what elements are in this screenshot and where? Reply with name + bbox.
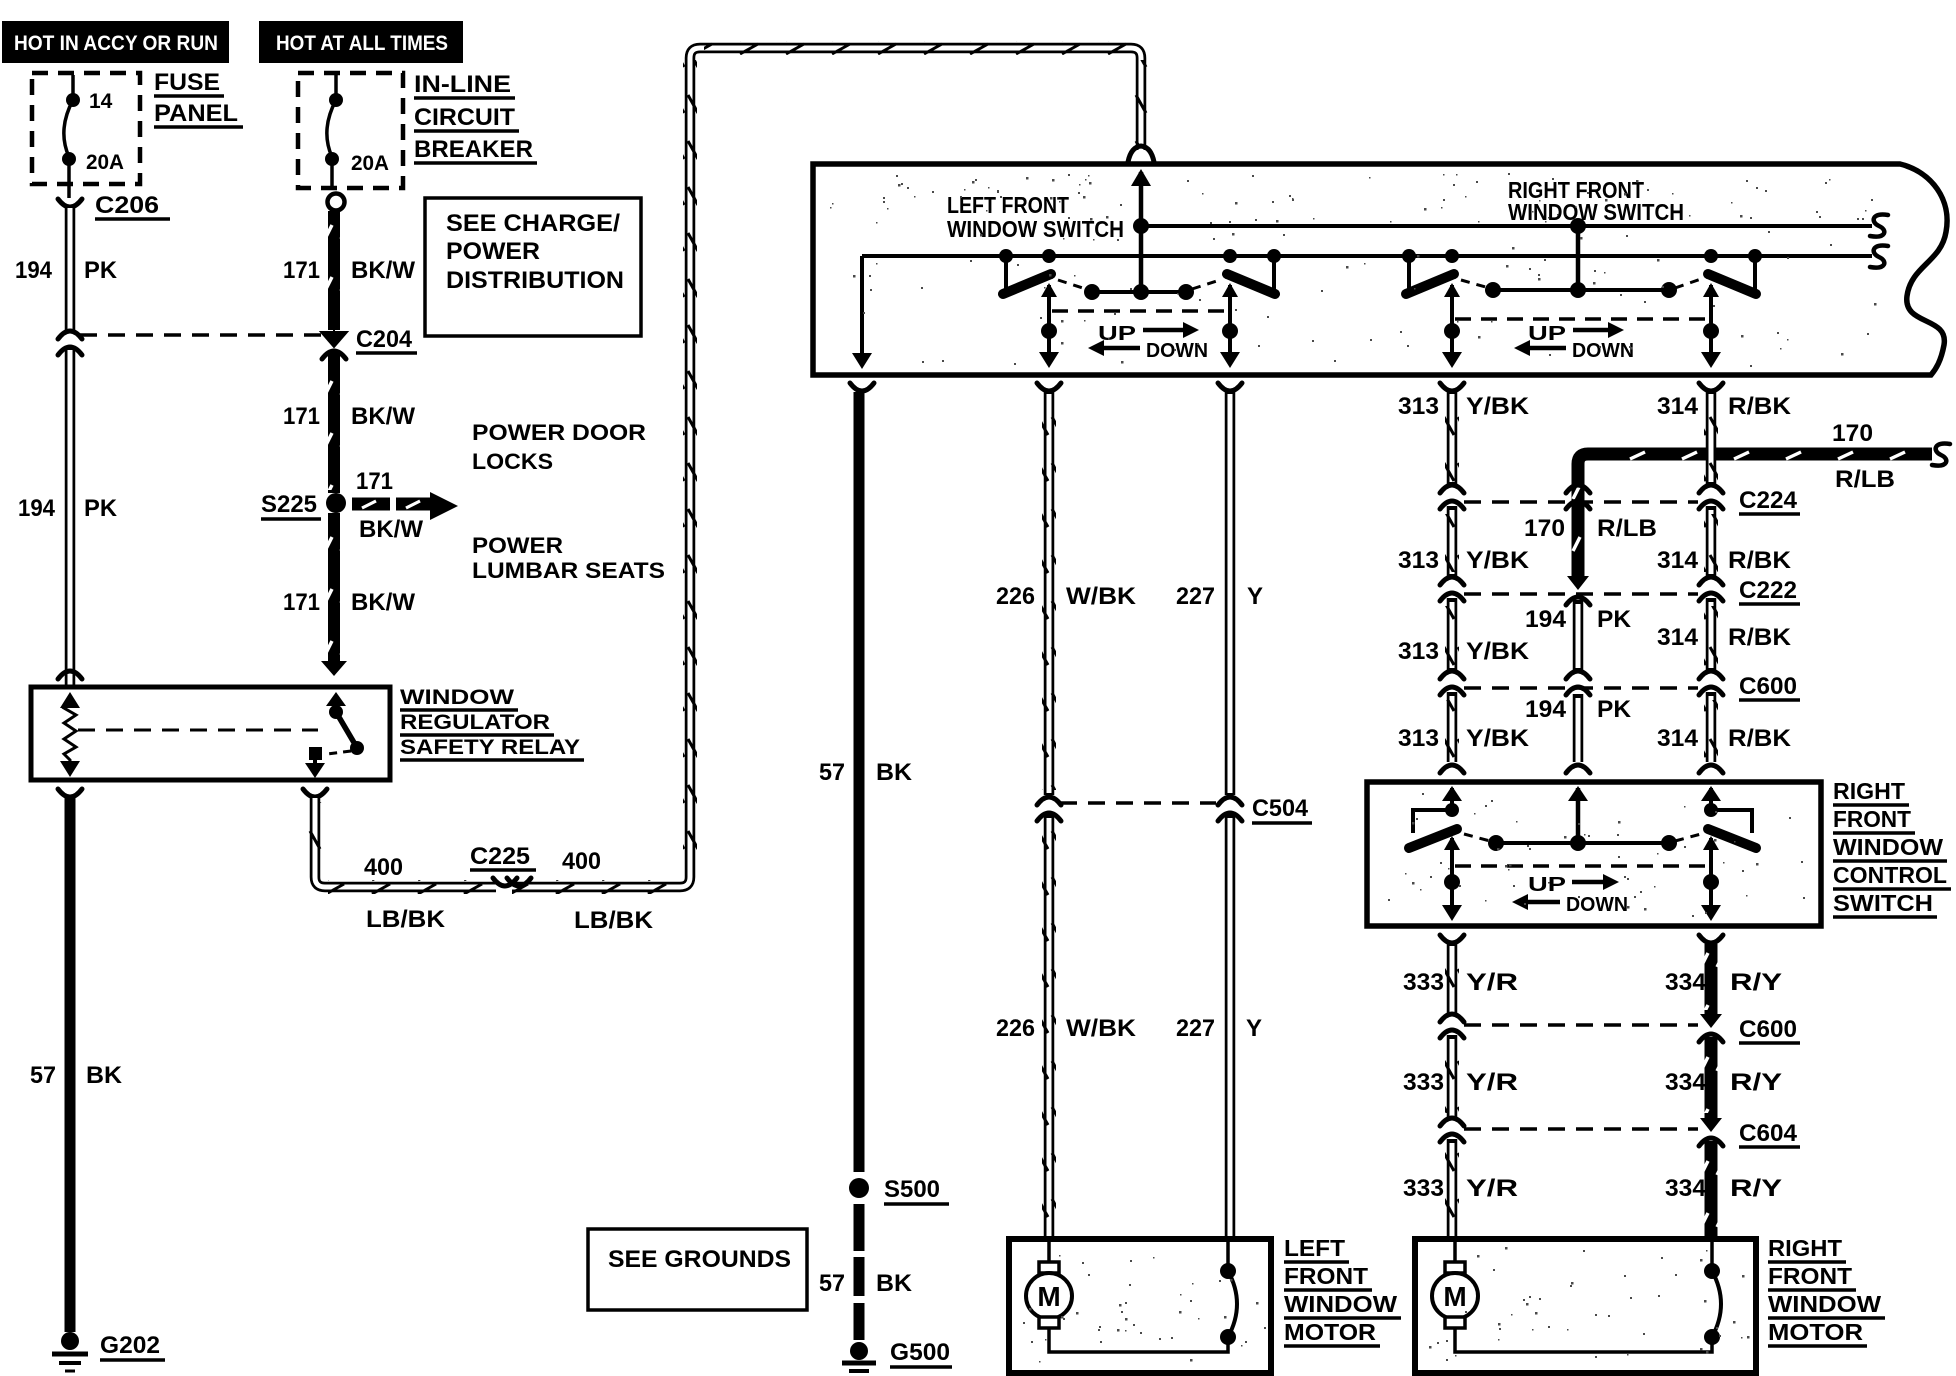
svg-text:Y/BK: Y/BK xyxy=(1466,638,1530,665)
svg-text:333: 333 xyxy=(1403,1175,1444,1202)
wire 333 Y/R seg1 xyxy=(1403,944,1518,1014)
svg-text:226: 226 xyxy=(996,1015,1035,1042)
svg-text:313: 313 xyxy=(1398,725,1439,752)
control switch UP/DOWN arrows xyxy=(1512,874,1628,916)
svg-text:PK: PK xyxy=(1597,696,1632,723)
right front window motor box xyxy=(1415,1239,1756,1373)
window switch assembly box with torn right edge xyxy=(813,164,1947,375)
right switch left wiper xyxy=(1402,249,1489,294)
label RIGHT FRONT WINDOW SWITCH xyxy=(1508,177,1684,225)
svg-text:C604: C604 xyxy=(1739,1120,1798,1147)
control switch right wiper xyxy=(1675,788,1756,848)
svg-text:57: 57 xyxy=(30,1062,56,1089)
arrow to power door locks / lumbar seats 171 BK/W xyxy=(352,468,458,543)
label IN-LINE CIRCUIT BREAKER xyxy=(414,71,537,163)
svg-text:S500: S500 xyxy=(884,1176,940,1203)
svg-text:C204: C204 xyxy=(356,326,413,353)
wire 333 Y/R seg3 xyxy=(1403,1139,1518,1242)
svg-text:227: 227 xyxy=(1176,1015,1215,1042)
svg-text:UP: UP xyxy=(1528,323,1566,345)
wire 313 Y/BK seg2 xyxy=(1398,506,1530,576)
svg-text:POWER DOOR: POWER DOOR xyxy=(472,420,646,445)
svg-text:Y/BK: Y/BK xyxy=(1466,725,1530,752)
wire 333 Y/R seg2 xyxy=(1403,1035,1518,1118)
svg-text:DOWN: DOWN xyxy=(1566,894,1628,916)
svg-text:194: 194 xyxy=(1525,606,1567,633)
splice S500 xyxy=(849,1176,949,1204)
ground G500 xyxy=(842,1339,952,1371)
left switch left wiper xyxy=(999,249,1086,294)
ground G202 xyxy=(52,1332,165,1371)
wire 194 PK lower segment xyxy=(1525,694,1632,762)
right switch center contacts xyxy=(1485,282,1677,298)
left switch DOWN plunger xyxy=(1220,283,1240,368)
svg-text:CIRCUIT: CIRCUIT xyxy=(414,104,515,131)
svg-text:14: 14 xyxy=(89,90,113,113)
svg-text:MOTOR: MOTOR xyxy=(1284,1319,1376,1345)
svg-text:FRONT: FRONT xyxy=(1284,1263,1368,1289)
svg-text:LEFT: LEFT xyxy=(1284,1235,1345,1261)
connector C225 xyxy=(470,843,536,896)
connector cap below box (wire 227) xyxy=(1218,383,1242,391)
relay switch xyxy=(305,692,364,778)
bus line2 xyxy=(862,254,1872,258)
fuse panel box (dashed) xyxy=(32,73,140,184)
wire 227 Y lower xyxy=(1176,814,1262,1242)
svg-text:C224: C224 xyxy=(1739,487,1798,514)
svg-text:SWITCH: SWITCH xyxy=(1833,890,1933,916)
svg-text:R/BK: R/BK xyxy=(1728,725,1792,752)
header HOT AT ALL TIMES xyxy=(259,21,463,63)
connector C204 dashed line xyxy=(80,333,325,337)
svg-text:Y: Y xyxy=(1247,583,1263,610)
connector C504 xyxy=(1037,795,1312,823)
svg-text:Y/BK: Y/BK xyxy=(1466,393,1530,420)
connector arrow into relay (wire 171) xyxy=(321,661,347,676)
bus line1 xyxy=(1141,224,1872,228)
connector C204 on wire 194 xyxy=(58,331,82,355)
svg-text:334: 334 xyxy=(1665,969,1707,996)
svg-text:R/BK: R/BK xyxy=(1728,624,1792,651)
control switch mechanical link dashed xyxy=(1455,864,1709,868)
connector C224 xyxy=(1440,485,1800,514)
connector cap below control box (wire 334) xyxy=(1699,935,1723,943)
svg-text:20A: 20A xyxy=(86,151,124,174)
svg-text:194: 194 xyxy=(1525,696,1567,723)
wire 194 PK mid segment xyxy=(1525,600,1632,670)
svg-text:400: 400 xyxy=(364,854,403,881)
svg-text:G202: G202 xyxy=(100,1332,160,1359)
svg-text:RIGHT: RIGHT xyxy=(1768,1235,1842,1261)
label FUSE PANEL xyxy=(154,69,243,127)
svg-text:333: 333 xyxy=(1403,1069,1444,1096)
wire 313 Y/BK seg3 xyxy=(1398,598,1530,670)
wire 227 Y upper xyxy=(1176,392,1263,795)
wire 314 R/BK seg2 xyxy=(1657,506,1792,576)
svg-text:C225: C225 xyxy=(470,843,530,870)
connector cap below relay (wire 400) xyxy=(303,789,327,797)
note POWER DOOR LOCKS xyxy=(472,420,646,474)
svg-text:W/BK: W/BK xyxy=(1066,1015,1137,1042)
in-line circuit breaker box (dashed) xyxy=(298,73,403,188)
connector cap above switch box (wire 400) xyxy=(1128,146,1154,162)
right motor M xyxy=(1432,1242,1712,1352)
svg-text:BK: BK xyxy=(876,759,913,786)
window regulator safety relay box xyxy=(31,687,390,780)
wire 334 R/Y seg2 xyxy=(1665,1037,1782,1120)
svg-text:HOT IN ACCY OR RUN: HOT IN ACCY OR RUN xyxy=(14,32,218,55)
connector C206 xyxy=(58,184,170,219)
svg-text:POWER: POWER xyxy=(472,533,563,558)
right switch UP/DOWN arrows xyxy=(1514,322,1634,362)
svg-text:SEE CHARGE/: SEE CHARGE/ xyxy=(446,210,620,237)
wire 57 BK left xyxy=(30,798,123,1332)
right switch DOWN plunger xyxy=(1701,283,1721,368)
connector C604 xyxy=(1440,1118,1800,1147)
svg-text:194: 194 xyxy=(18,495,56,522)
label LEFT FRONT WINDOW SWITCH xyxy=(947,192,1124,242)
svg-text:PK: PK xyxy=(1597,606,1632,633)
labels 400 LB/BK left xyxy=(364,854,446,933)
wire 194 PK upper segment xyxy=(15,208,118,330)
svg-text:REGULATOR: REGULATOR xyxy=(400,711,550,734)
svg-text:333: 333 xyxy=(1403,969,1444,996)
svg-text:314: 314 xyxy=(1657,725,1699,752)
svg-text:WINDOW: WINDOW xyxy=(1768,1291,1881,1317)
control switch left wiper xyxy=(1409,788,1490,848)
svg-text:BK/W: BK/W xyxy=(351,403,415,430)
svg-text:SEE GROUNDS: SEE GROUNDS xyxy=(608,1246,791,1273)
connector cap below box (wire 226) xyxy=(1037,383,1061,391)
svg-text:R/LB: R/LB xyxy=(1597,515,1657,542)
S break wire 170 xyxy=(1932,443,1950,465)
svg-text:313: 313 xyxy=(1398,393,1439,420)
svg-text:Y/R: Y/R xyxy=(1466,1175,1518,1202)
svg-text:C222: C222 xyxy=(1739,577,1797,604)
svg-text:171: 171 xyxy=(283,589,320,616)
svg-text:C600: C600 xyxy=(1739,673,1797,700)
header HOT IN ACCY OR RUN xyxy=(2,21,229,63)
breaker terminal ring xyxy=(328,194,345,211)
svg-text:194: 194 xyxy=(15,257,53,284)
svg-text:313: 313 xyxy=(1398,547,1439,574)
connector C222 xyxy=(1440,576,1800,605)
connector C600 upper xyxy=(1440,671,1800,700)
control switch left plunger xyxy=(1442,836,1462,921)
svg-text:WINDOW SWITCH: WINDOW SWITCH xyxy=(1508,199,1684,225)
left motor reversing contact arc xyxy=(1220,1242,1237,1345)
wire 226 W/BK upper xyxy=(996,392,1137,795)
left switch UP plunger xyxy=(1039,283,1059,368)
right switch feed drop xyxy=(1570,218,1586,290)
svg-text:PK: PK xyxy=(84,495,118,522)
left motor M xyxy=(1026,1242,1228,1352)
svg-text:POWER: POWER xyxy=(446,238,540,265)
label WINDOW REGULATOR SAFETY RELAY xyxy=(400,686,584,760)
connector cap into relay (wire 194) xyxy=(58,671,82,679)
wire 57 BK mid xyxy=(819,392,913,1172)
note SEE CHARGE / POWER DISTRIBUTION xyxy=(425,198,641,336)
svg-text:FUSE: FUSE xyxy=(154,69,220,96)
S break line2 xyxy=(1870,245,1888,267)
svg-text:WINDOW: WINDOW xyxy=(400,686,514,709)
svg-text:226: 226 xyxy=(996,583,1035,610)
svg-text:Y/R: Y/R xyxy=(1466,969,1518,996)
svg-text:S225: S225 xyxy=(261,491,317,518)
right switch mechanical link dashed xyxy=(1455,317,1709,321)
svg-text:LB/BK: LB/BK xyxy=(574,907,654,934)
svg-text:G500: G500 xyxy=(890,1339,950,1366)
svg-text:314: 314 xyxy=(1657,547,1699,574)
relay actuation dashed link xyxy=(78,729,318,732)
svg-text:LB/BK: LB/BK xyxy=(366,906,446,933)
svg-text:WINDOW SWITCH: WINDOW SWITCH xyxy=(947,216,1124,242)
svg-text:BK/W: BK/W xyxy=(351,589,415,616)
connector C600 lower xyxy=(1440,1014,1800,1043)
connector cap below box (wire 314) xyxy=(1699,383,1723,391)
svg-text:C600: C600 xyxy=(1739,1016,1797,1043)
svg-text:M: M xyxy=(1037,1281,1060,1312)
wire 170 R/LB mid segment xyxy=(1524,506,1657,576)
svg-text:R/Y: R/Y xyxy=(1730,1069,1782,1096)
connector cap below box (wire 313) xyxy=(1440,383,1464,391)
svg-text:400: 400 xyxy=(562,848,601,875)
svg-text:C206: C206 xyxy=(95,192,159,219)
right motor reversing contact arc xyxy=(1704,1242,1721,1345)
wire 313 Y/BK seg1 xyxy=(1398,392,1530,484)
svg-text:IN-LINE: IN-LINE xyxy=(414,71,511,98)
svg-text:CONTROL: CONTROL xyxy=(1833,862,1947,888)
svg-text:20A: 20A xyxy=(351,152,389,175)
left switch mechanical link dashed xyxy=(1052,309,1228,313)
fuse F14 20A xyxy=(62,75,124,184)
wire 314 R/BK seg1 xyxy=(1657,392,1792,484)
svg-text:R/LB: R/LB xyxy=(1835,466,1895,493)
svg-text:BK: BK xyxy=(86,1062,123,1089)
svg-text:BK/W: BK/W xyxy=(351,257,415,284)
svg-text:171: 171 xyxy=(283,403,320,430)
svg-text:WINDOW: WINDOW xyxy=(1284,1291,1397,1317)
svg-text:57: 57 xyxy=(819,759,845,786)
right switch right wiper xyxy=(1675,249,1762,294)
label RIGHT FRONT WINDOW MOTOR xyxy=(1768,1235,1885,1346)
note SEE GROUNDS xyxy=(588,1229,807,1310)
circuit breaker element 20A xyxy=(325,75,389,188)
svg-text:314: 314 xyxy=(1657,624,1699,651)
wire 171 BK/W upper xyxy=(283,211,415,330)
svg-text:170: 170 xyxy=(1832,420,1873,447)
S break line1 xyxy=(1870,214,1888,236)
svg-text:Y: Y xyxy=(1246,1015,1262,1042)
svg-text:FRONT: FRONT xyxy=(1833,806,1911,832)
svg-text:PANEL: PANEL xyxy=(154,100,238,127)
left switch center contacts xyxy=(1084,284,1194,300)
svg-text:R/BK: R/BK xyxy=(1728,547,1792,574)
svg-text:W/BK: W/BK xyxy=(1066,583,1137,610)
wire 171 BK/W mid xyxy=(283,352,415,493)
svg-text:170: 170 xyxy=(1524,515,1565,542)
svg-text:MOTOR: MOTOR xyxy=(1768,1319,1863,1345)
label LEFT FRONT WINDOW MOTOR xyxy=(1284,1235,1401,1346)
connector C204 on wire 171 (male arrow + cap) xyxy=(321,326,417,359)
scan speckle xyxy=(830,173,1877,1363)
svg-text:WINDOW: WINDOW xyxy=(1833,834,1943,860)
svg-text:BK: BK xyxy=(876,1270,913,1297)
wire 334 R/Y seg1 xyxy=(1665,944,1782,1016)
svg-text:227: 227 xyxy=(1176,583,1215,610)
svg-text:Y/BK: Y/BK xyxy=(1466,547,1530,574)
wire 57 BK lower segments xyxy=(819,1204,913,1340)
relay coil element xyxy=(60,692,80,777)
svg-text:DISTRIBUTION: DISTRIBUTION xyxy=(446,267,624,294)
splice S225 xyxy=(261,491,346,519)
svg-text:LOCKS: LOCKS xyxy=(472,449,553,474)
labels 400 LB/BK right xyxy=(562,848,654,934)
label RIGHT FRONT WINDOW CONTROL SWITCH xyxy=(1833,778,1951,917)
right front window control switch box xyxy=(1367,782,1821,926)
svg-text:171: 171 xyxy=(356,468,393,495)
svg-text:DOWN: DOWN xyxy=(1572,340,1634,362)
wire 313 Y/BK seg4 xyxy=(1398,692,1530,762)
svg-text:334: 334 xyxy=(1665,1175,1707,1202)
wire 194 PK lower segment xyxy=(18,348,118,687)
svg-text:171: 171 xyxy=(283,257,320,284)
wire 226 W/BK lower xyxy=(996,814,1137,1242)
svg-text:57: 57 xyxy=(819,1270,845,1297)
svg-text:LEFT FRONT: LEFT FRONT xyxy=(947,192,1069,218)
svg-text:SAFETY RELAY: SAFETY RELAY xyxy=(400,736,580,759)
left front window motor box xyxy=(1009,1239,1271,1373)
control switch right plunger xyxy=(1701,836,1721,921)
svg-text:M: M xyxy=(1443,1281,1466,1312)
svg-text:HOT AT ALL TIMES: HOT AT ALL TIMES xyxy=(276,32,448,55)
left feed drop from bus line2 xyxy=(852,256,872,369)
connector cap below control box (wire 333) xyxy=(1440,935,1464,943)
wire 314 R/BK seg3 xyxy=(1657,598,1792,670)
connector cap below relay (wire 57) xyxy=(58,789,82,797)
svg-text:314: 314 xyxy=(1657,393,1699,420)
note POWER LUMBAR SEATS xyxy=(472,533,665,583)
svg-text:UP: UP xyxy=(1528,874,1566,896)
svg-text:313: 313 xyxy=(1398,638,1439,665)
svg-text:FRONT: FRONT xyxy=(1768,1263,1852,1289)
svg-text:LUMBAR SEATS: LUMBAR SEATS xyxy=(472,558,665,583)
svg-text:RIGHT: RIGHT xyxy=(1833,778,1905,804)
right switch UP plunger xyxy=(1442,283,1462,368)
control switch entry arrows xyxy=(1442,786,1721,801)
wire 400 LB/BK long run to switch xyxy=(308,41,1148,894)
left switch right wiper xyxy=(1192,249,1281,294)
connector cap below box (wire 57 mid) xyxy=(850,383,874,391)
left switch UP/DOWN arrows xyxy=(1088,322,1208,362)
wire 171 BK/W lower xyxy=(283,513,415,661)
svg-text:Y/R: Y/R xyxy=(1466,1069,1518,1096)
svg-text:R/BK: R/BK xyxy=(1728,393,1792,420)
wire 314 R/BK seg4 xyxy=(1657,692,1792,762)
wire 170 R/LB feed from right xyxy=(1570,420,1932,576)
svg-text:PK: PK xyxy=(84,257,118,284)
feed wire into box from 400 xyxy=(1131,169,1151,292)
svg-text:C504: C504 xyxy=(1252,795,1309,822)
connector caps above control switch box xyxy=(1440,765,1723,773)
svg-text:R/Y: R/Y xyxy=(1730,1175,1782,1202)
svg-text:334: 334 xyxy=(1665,1069,1707,1096)
control switch center contacts xyxy=(1488,788,1677,851)
wire 334 R/Y seg3 xyxy=(1665,1141,1782,1242)
svg-text:BREAKER: BREAKER xyxy=(414,136,533,163)
svg-text:R/Y: R/Y xyxy=(1730,969,1782,996)
svg-text:BK/W: BK/W xyxy=(359,516,423,543)
